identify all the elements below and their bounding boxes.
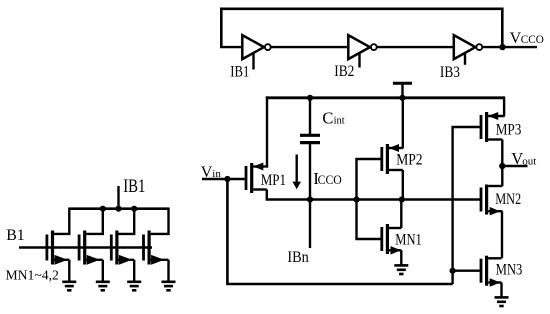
node Cint tap [307, 95, 313, 101]
svg-text:MN2: MN2 [495, 191, 521, 208]
node IB1 tap [115, 206, 121, 212]
wire Vin feedforward bottom rail [227, 179, 452, 284]
ground array 4 [162, 280, 176, 283]
wire IB1 out to IB2 in [271, 46, 348, 48]
transistor MN array 4 [151, 208, 169, 234]
ground MN3 [495, 296, 509, 299]
capacitor Cint [309, 98, 311, 135]
svg-text:IBn: IBn [287, 249, 309, 266]
transistor MP2 [380, 147, 383, 171]
wire MP3/MN3 gate vertical from bottom rail [453, 127, 480, 284]
svg-text:IB3: IB3 [440, 64, 460, 81]
wire MP2/MN1 gate vertical [357, 159, 382, 239]
node MN3 gate tap [450, 268, 456, 274]
wire IB2 out to IB3 in [377, 46, 454, 48]
node Vout [499, 163, 505, 169]
wire bias array top rail [69, 207, 168, 210]
node VDD tap on rail [399, 95, 405, 101]
svg-text:MP2: MP2 [396, 152, 422, 169]
svg-text:MP3: MP3 [496, 121, 522, 138]
wire MN2 source to MN3 drain [501, 211, 503, 258]
node VCCO [499, 44, 505, 50]
svg-text:IB2: IB2 [334, 63, 354, 80]
transistor MN array 3 [118, 209, 134, 234]
wire MP2 drain vertical [402, 170, 404, 200]
arrow ICCO current [296, 155, 298, 184]
ground MN1 [394, 264, 408, 267]
svg-text:CCO: CCO [318, 173, 342, 187]
svg-text:C: C [322, 109, 333, 128]
wire IB3 out to VCCO node [483, 46, 537, 48]
svg-text:out: out [522, 155, 536, 167]
node drain tap 3 [131, 206, 137, 212]
wire feedback loop of ring oscillator [221, 9, 502, 47]
wire MP3 drain to Vout node [501, 140, 503, 167]
wire Vout stub [502, 165, 527, 167]
wire Vin to MP1 gate [202, 178, 245, 180]
ground array 3 [127, 280, 141, 283]
node MP2/MN1 drains [399, 196, 405, 202]
svg-text:MN1: MN1 [395, 231, 422, 248]
svg-text:IB1: IB1 [230, 64, 249, 81]
inverter IB1 [242, 35, 264, 59]
ground array 2 [96, 280, 110, 283]
wire MN1 drain vertical [400, 200, 402, 229]
node drain tap 2 [100, 206, 106, 212]
wire MN3 source to ground [500, 283, 502, 298]
svg-text:int: int [334, 116, 345, 127]
node MP2 gate tap [353, 196, 359, 202]
transistor MN1 [380, 227, 383, 251]
inverter IB2 [348, 35, 370, 59]
svg-text:CCO: CCO [521, 32, 544, 46]
wire MP3 source vertical [503, 96, 505, 116]
transistor MP1 [245, 166, 248, 190]
wire B1 gate line [19, 246, 152, 248]
transistor MN3 [480, 259, 483, 283]
wire MN1 source to ground [400, 250, 402, 265]
wire IBn pull-down [309, 200, 311, 249]
transistor MN array 1 [54, 208, 69, 234]
VDD supply symbol [393, 82, 412, 85]
wire MN3 gate stub [453, 270, 481, 272]
svg-text:V: V [510, 30, 522, 47]
svg-text:in: in [212, 168, 221, 180]
svg-text:V: V [201, 164, 213, 181]
transistor MN array 2 [86, 209, 103, 234]
transistor MN2 [480, 188, 483, 212]
node Vin [224, 176, 230, 182]
svg-text:MP1: MP1 [261, 172, 286, 189]
wire MP1 source vertical [266, 96, 268, 166]
wire diode node line [266, 198, 481, 200]
ground array 1 [62, 280, 76, 283]
wire top supply rail [266, 96, 504, 99]
wire MP2 source vertical [402, 98, 404, 148]
wire IB1 input [220, 46, 242, 48]
svg-text:IB1: IB1 [123, 177, 145, 197]
svg-text:B1: B1 [6, 227, 25, 244]
wire MN2 drain vertical [501, 166, 503, 186]
node Cint/IBn on node line [307, 196, 313, 202]
transistor MP3 [480, 115, 483, 139]
svg-text:MN3: MN3 [496, 261, 523, 278]
svg-text:MN1~4,2: MN1~4,2 [6, 269, 59, 284]
wire IB1 bias tap [117, 186, 119, 209]
inverter IB3 [454, 35, 476, 59]
